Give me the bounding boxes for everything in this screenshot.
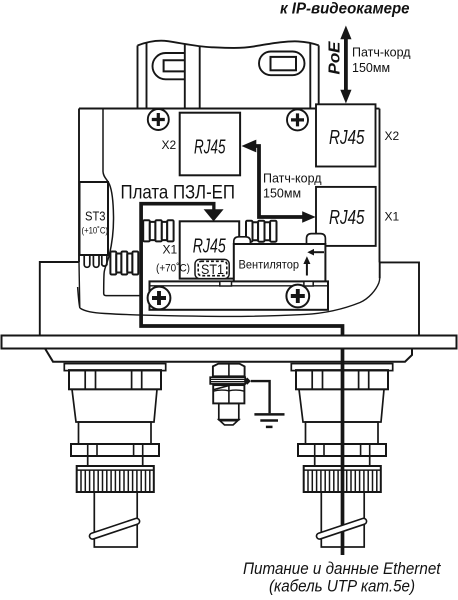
- gland wire clip: [89, 518, 141, 540]
- screw top-left: [148, 109, 169, 130]
- bracket left leg lines: [137, 46, 139, 109]
- svg-text:Патч-корд: Патч-корд: [352, 46, 411, 60]
- bracket left slot: [153, 53, 186, 79]
- inductor bank right: [246, 221, 277, 242]
- bracket wavy top edge: [138, 41, 319, 48]
- module RJ45 X2 box: [316, 104, 376, 166]
- svg-text:ST1: ST1: [201, 261, 224, 277]
- svg-text:Питание и данные Ethernet: Питание и данные Ethernet: [243, 560, 442, 578]
- base plate tab right: [304, 281, 313, 286]
- enclosure right step: [380, 262, 420, 335]
- flange plate: [2, 336, 457, 349]
- gland left: [64, 364, 165, 547]
- inductor bank left: [110, 252, 138, 275]
- ST1 dashed box: [198, 261, 227, 275]
- svg-text:150мм: 150мм: [263, 187, 301, 201]
- svg-text:(+70˚C): (+70˚C): [156, 263, 190, 275]
- ground bolt upper hex: [213, 364, 245, 377]
- ethernet cable thick path: [141, 204, 342, 555]
- gland body upper: [72, 389, 157, 422]
- ground bolt washer stack: [210, 377, 245, 384]
- svg-text:(кабель UTP кат.5е): (кабель UTP кат.5е): [269, 578, 415, 596]
- enclosure top edge: [79, 108, 380, 110]
- ground terminal diamond: [244, 378, 251, 385]
- svg-text:(+10˚C): (+10˚C): [82, 226, 109, 237]
- enclosure inner left panel line: [103, 109, 140, 296]
- base plate tab left: [220, 281, 232, 286]
- enclosure bottom cylinder curve: [80, 278, 380, 316]
- fan mounting dome right: [307, 234, 326, 245]
- module casing right edge: [379, 109, 381, 279]
- PoE patch cord double arrow: [340, 26, 351, 104]
- ground bolt nut: [213, 385, 244, 403]
- ground wire: [251, 381, 270, 413]
- base plate: [150, 281, 329, 309]
- bracket right slot: [259, 52, 305, 76]
- bracket middle strip lines: [184, 44, 186, 109]
- inductor bank middle: [143, 220, 173, 241]
- fan airflow arrow up: [303, 256, 310, 275]
- ethernet cable arrow into board X1: [204, 204, 224, 222]
- svg-text:X1: X1: [163, 243, 178, 257]
- ST3 pins: [84, 255, 107, 267]
- board RJ45 X1 box: [180, 221, 240, 278]
- svg-text:RJ45: RJ45: [329, 207, 365, 229]
- enclosure left step: [40, 262, 79, 336]
- gland body lower: [79, 422, 152, 444]
- gland neck: [88, 456, 143, 466]
- svg-text:PoE: PoE: [327, 40, 344, 74]
- ground bolt stud: [219, 403, 239, 419]
- patch cord (board X2 to module X1) thick path: [255, 146, 303, 217]
- svg-text:150мм: 150мм: [352, 61, 390, 75]
- board RJ45 X2 box: [180, 113, 240, 176]
- svg-text:к IP-видеокамере: к IP-видеокамере: [280, 1, 410, 18]
- base plate inner line: [150, 285, 329, 287]
- bracket right slot inner rectangle: [271, 57, 297, 70]
- gland flange nut: [71, 444, 159, 456]
- gland knurled ring: [77, 466, 154, 492]
- svg-text:ST3: ST3: [85, 209, 106, 224]
- ground symbol: [254, 414, 284, 427]
- svg-text:X2: X2: [385, 129, 400, 143]
- svg-text:Патч-корд: Патч-корд: [263, 172, 322, 186]
- svg-text:RJ45: RJ45: [194, 136, 226, 158]
- svg-text:X2: X2: [162, 138, 177, 152]
- gland boss: [64, 364, 165, 371]
- enclosure left edge: [78, 109, 80, 263]
- ST3 thermostat box: [80, 182, 109, 255]
- screw board-left: [148, 287, 171, 310]
- svg-text:RJ45: RJ45: [329, 127, 365, 149]
- svg-text:X1: X1: [385, 210, 400, 224]
- module RJ45 X1 box: [316, 187, 376, 246]
- svg-text:Вентилятор: Вентилятор: [239, 258, 300, 272]
- ground bolt split washer line: [214, 385, 230, 389]
- screw top-right: [287, 109, 308, 130]
- bracket right edge lines: [309, 43, 311, 109]
- fan mounting dome left: [234, 237, 251, 245]
- gland right: [291, 364, 392, 547]
- fan box: [234, 244, 326, 282]
- ST1 sensor outline: [195, 259, 229, 278]
- gland hex nut: [69, 370, 161, 389]
- flange second tier: [45, 349, 412, 362]
- bracket left slot inner rectangle: [164, 60, 185, 71]
- screw board-right: [286, 285, 309, 308]
- fan airflow arrow left: [307, 249, 324, 256]
- svg-text:Плата ПЗЛ-ЕП: Плата ПЗЛ-ЕП: [121, 182, 236, 203]
- enclosure left lower outline: [78, 262, 80, 308]
- svg-text:RJ45: RJ45: [193, 236, 227, 258]
- gland cable tube: [94, 492, 137, 547]
- ground bolt tip: [219, 420, 239, 425]
